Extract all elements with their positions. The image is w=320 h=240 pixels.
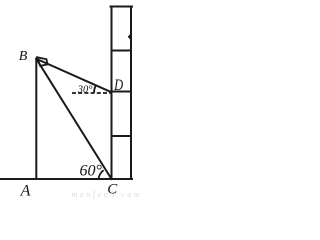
svg-text:30°: 30° bbox=[77, 85, 94, 96]
svg-text:D: D bbox=[113, 76, 123, 94]
svg-text:A: A bbox=[20, 183, 31, 200]
svg-text:B: B bbox=[19, 49, 28, 64]
svg-text:60°: 60° bbox=[80, 162, 103, 179]
svg-text:manfen5.com: manfen5.com bbox=[72, 190, 140, 199]
